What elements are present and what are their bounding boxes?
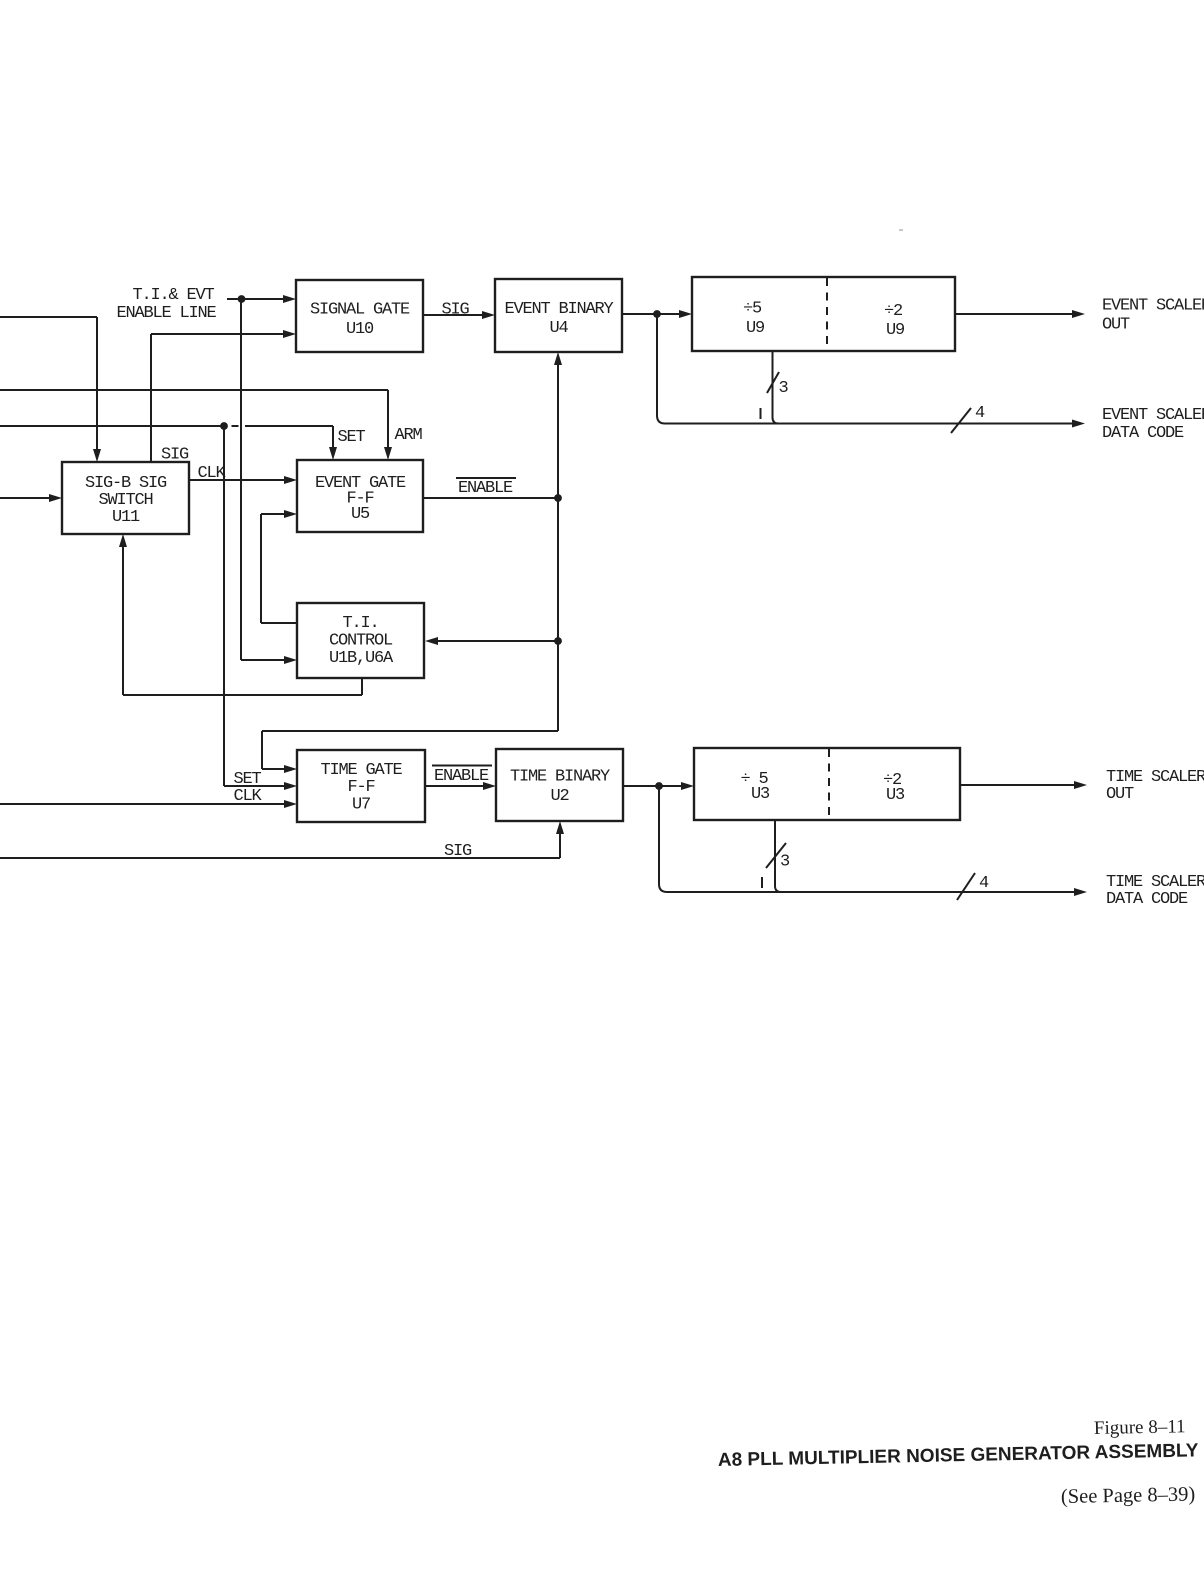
svg-text:4: 4	[975, 404, 985, 423]
svg-text:DATA CODE: DATA CODE	[1106, 890, 1188, 909]
svg-text:U10: U10	[346, 320, 374, 339]
svg-text:SIGNAL GATE: SIGNAL GATE	[310, 301, 410, 320]
svg-text:A8 PLL MULTIPLIER NOISE GENERA: A8 PLL MULTIPLIER NOISE GENERATOR ASSEMB…	[718, 1440, 1199, 1471]
svg-text:ENABLE LINE: ENABLE LINE	[116, 304, 216, 323]
svg-text:DATA CODE: DATA CODE	[1102, 424, 1184, 443]
svg-text:÷5: ÷5	[743, 300, 762, 319]
svg-text:U3: U3	[886, 786, 905, 805]
svg-text:U2: U2	[550, 787, 568, 806]
svg-text:U5: U5	[351, 505, 370, 524]
svg-text:3: 3	[780, 853, 790, 872]
svg-text:U9: U9	[746, 319, 765, 338]
svg-text:CLK: CLK	[234, 787, 263, 806]
svg-text:Figure 8–11: Figure 8–11	[1094, 1416, 1186, 1439]
svg-text:T.I.& EVT: T.I.& EVT	[132, 286, 214, 305]
svg-text:CONTROL: CONTROL	[329, 632, 393, 651]
svg-text:OUT: OUT	[1102, 316, 1130, 335]
svg-text:ENABLE: ENABLE	[434, 767, 489, 786]
svg-text:OUT: OUT	[1106, 785, 1134, 804]
svg-text:EVENT BINARY: EVENT BINARY	[504, 300, 613, 319]
svg-text:TIME BINARY: TIME BINARY	[510, 768, 610, 787]
svg-text:T.I.: T.I.	[342, 614, 378, 633]
svg-text:ENABLE: ENABLE	[458, 479, 513, 498]
svg-text:U3: U3	[751, 785, 770, 804]
svg-text:F-F: F-F	[347, 778, 374, 797]
svg-text:SIG: SIG	[442, 301, 470, 320]
svg-text:SIG: SIG	[161, 446, 189, 465]
svg-text:U1B,U6A: U1B,U6A	[329, 649, 394, 668]
svg-text:SIG: SIG	[444, 842, 472, 861]
svg-text:(See Page 8–39): (See Page 8–39)	[1061, 1483, 1196, 1508]
svg-text:SET: SET	[338, 428, 366, 447]
svg-text:4: 4	[979, 874, 989, 893]
svg-text:EVENT SCALER: EVENT SCALER	[1102, 406, 1204, 425]
svg-text:EVENT SCALER: EVENT SCALER	[1102, 296, 1204, 315]
svg-text:U9: U9	[886, 321, 905, 340]
svg-text:U4: U4	[549, 319, 568, 338]
svg-text:ARM: ARM	[395, 426, 423, 445]
svg-text:U11: U11	[112, 508, 140, 527]
svg-text:U7: U7	[352, 796, 370, 815]
svg-text:÷2: ÷2	[884, 302, 902, 321]
svg-text:CLK: CLK	[198, 464, 227, 483]
svg-text:3: 3	[779, 379, 789, 398]
